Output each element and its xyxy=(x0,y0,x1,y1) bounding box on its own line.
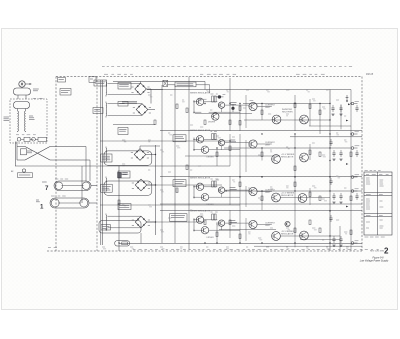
svg-text:SERIES REGULATOR: SERIES REGULATOR xyxy=(190,176,211,179)
svg-text:REV JUN 1982: REV JUN 1982 xyxy=(370,250,385,252)
svg-text:RECTIFIER: RECTIFIER xyxy=(282,111,293,113)
svg-text:2: 2 xyxy=(384,246,389,255)
svg-text:LIMIT: LIMIT xyxy=(265,144,271,146)
svg-text:DRIVER: DRIVER xyxy=(208,122,216,124)
svg-text:DRIVER: DRIVER xyxy=(207,204,215,206)
svg-text:LIMIT: LIMIT xyxy=(265,225,271,227)
svg-text:DRIVER: DRIVER xyxy=(207,237,215,239)
svg-text:REGULATOR: REGULATOR xyxy=(281,155,294,158)
svg-text:REGULATOR: REGULATOR xyxy=(281,194,294,197)
svg-text:1: 1 xyxy=(40,204,44,211)
svg-text:7: 7 xyxy=(45,185,49,192)
svg-text:Low Voltage Power Supply: Low Voltage Power Supply xyxy=(360,259,389,262)
svg-text:DRIVER: DRIVER xyxy=(207,157,215,159)
svg-text:SERIES REGULATOR: SERIES REGULATOR xyxy=(190,209,211,212)
svg-text:REGULATOR: REGULATOR xyxy=(281,232,294,235)
svg-text:SERIES REGULATOR: SERIES REGULATOR xyxy=(190,129,211,132)
svg-text:468-05: 468-05 xyxy=(366,74,374,76)
svg-text:LIMIT: LIMIT xyxy=(265,192,271,194)
svg-text:LIMIT: LIMIT xyxy=(265,107,271,109)
